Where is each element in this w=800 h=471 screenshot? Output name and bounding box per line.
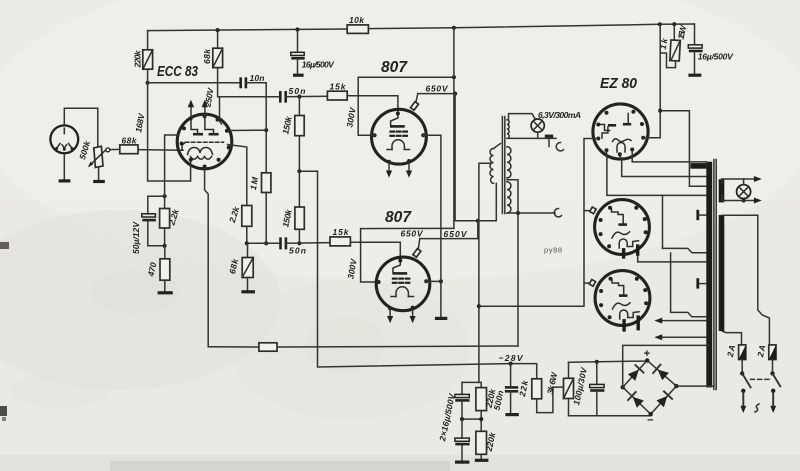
resistor 2.2k cathode xyxy=(160,196,182,246)
wire heater arrow line 1 xyxy=(654,318,706,324)
tube EZ80 pin dots xyxy=(596,110,645,157)
wire ECC83 pin down to bias rail xyxy=(205,169,209,347)
resistor 1M grid leak xyxy=(248,130,271,243)
chassis tag xyxy=(545,136,553,146)
resistor 220k anode load xyxy=(133,31,153,70)
socket 807-1 bottom pins xyxy=(622,248,625,259)
winding tap stub xyxy=(507,180,518,346)
wire 250V node xyxy=(218,68,281,97)
bridge nodes xyxy=(645,358,649,362)
socket 807-1 envelope xyxy=(595,200,650,255)
tube 807-2 internals xyxy=(391,261,414,297)
node 150k bottom xyxy=(297,241,301,245)
mains terminal left xyxy=(740,389,746,413)
ground under 68k xyxy=(241,290,255,293)
resistor 470 bias xyxy=(146,246,170,292)
switch pole right xyxy=(770,360,780,387)
svg-text:ECC 83: ECC 83 xyxy=(157,64,198,80)
wire 10n to grid2 node xyxy=(265,83,267,130)
transformer core xyxy=(501,117,503,214)
anode arrow up right xyxy=(202,100,208,117)
scan edge artifact left xyxy=(0,242,9,249)
resistor 15k grid stopper 1 xyxy=(327,82,347,101)
wire mains loop left xyxy=(722,331,742,345)
tube 807-1 envelope xyxy=(372,109,427,164)
wire block top xyxy=(462,382,481,387)
svg-text:−: − xyxy=(647,415,654,427)
tube ECC83 internals xyxy=(182,117,224,159)
capacitor 50n coupling upper xyxy=(280,86,327,103)
resistor 68k tail lower xyxy=(227,243,253,290)
svg-text:650V: 650V xyxy=(426,84,449,94)
top cap anode 807-2 xyxy=(413,239,422,258)
wire EZ80 pin heater loop xyxy=(607,152,663,249)
node top of 68k xyxy=(216,28,220,32)
cathode arrow down left 807-2 xyxy=(387,310,393,323)
wire bridge AC left xyxy=(623,345,709,387)
resistor 3k 6W xyxy=(545,362,574,416)
svg-text:68k: 68k xyxy=(122,136,138,146)
winding primary left xyxy=(490,149,494,184)
top cap anode 807-1 xyxy=(410,94,419,111)
svg-text:50n: 50n xyxy=(289,86,306,96)
top cap clip 1 xyxy=(584,207,596,214)
svg-text:50µ/12V: 50µ/12V xyxy=(131,221,141,254)
switch pole left xyxy=(740,360,751,388)
wire 220k down to junction and anode loop under tube xyxy=(147,69,149,83)
heater hook terminal xyxy=(556,142,563,150)
input jack socket xyxy=(50,125,78,153)
svg-text:+: + xyxy=(644,348,651,360)
wire B+ to transformer CT xyxy=(660,111,706,187)
capacitor 10n coupling xyxy=(148,73,267,88)
node 500n tap xyxy=(509,362,513,366)
wire block mid xyxy=(462,418,481,420)
winding HV upper xyxy=(507,147,511,178)
wire CT bias rail xyxy=(277,346,518,347)
wire 650V anode 2 xyxy=(420,238,478,240)
cathode arrow down right 807-1 xyxy=(406,163,412,178)
svg-text:EZ 80: EZ 80 xyxy=(600,75,638,92)
svg-text:807: 807 xyxy=(385,209,412,226)
wire 250V to tube anode pin xyxy=(220,97,222,124)
mains terminal right xyxy=(770,389,776,413)
potentiometer 500k xyxy=(77,138,110,167)
tube EZ80 envelope xyxy=(593,104,648,159)
node top of 16u xyxy=(295,27,299,31)
diode TR xyxy=(653,365,669,381)
top cap clip 2 xyxy=(584,280,596,287)
tube ECC83 pin dots xyxy=(180,114,231,168)
fuse 2A right xyxy=(755,344,776,360)
wire heater return xyxy=(509,132,538,138)
node tail junction xyxy=(245,241,249,245)
diode BL xyxy=(628,392,644,408)
svg-text:16µ/500V: 16µ/500V xyxy=(302,60,335,70)
node screens feed xyxy=(452,26,456,30)
capacitor 16u doubler 2 xyxy=(455,419,470,462)
wire HV bottom to hook xyxy=(507,212,555,214)
wire rectifier plus rail xyxy=(569,360,648,362)
svg-text:650V: 650V xyxy=(444,229,468,239)
cathode arrow down right 807-2 xyxy=(410,310,416,324)
label AC tilde xyxy=(755,404,759,412)
wire 650V anode 1 xyxy=(418,93,455,95)
wire 15k to grid top entry xyxy=(347,96,398,112)
wire lower node bus xyxy=(247,242,281,244)
terminal tag upper xyxy=(698,210,707,220)
resistor 22k xyxy=(517,378,564,412)
socket 807-2 pin dots xyxy=(599,277,648,320)
svg-text:68k: 68k xyxy=(202,48,212,64)
capacitor 16u doubler 1 xyxy=(437,382,470,442)
tube 807-1 pin dots xyxy=(373,112,426,164)
tube 807-2 pin dots xyxy=(377,259,429,311)
tube ECC83 envelope xyxy=(177,114,232,169)
svg-text:220k: 220k xyxy=(133,49,143,68)
terminal tag lower xyxy=(698,278,707,288)
bridge diamond xyxy=(623,360,677,414)
node below 2.2k xyxy=(163,244,167,248)
wire rectifier minus rail xyxy=(569,414,651,416)
winding primary thick bar xyxy=(706,162,712,388)
resistor 150k upper xyxy=(280,97,304,172)
wire pot to ground xyxy=(98,168,100,181)
winding top corner bar xyxy=(690,163,706,169)
wire tube pin to cathode network xyxy=(165,135,178,196)
wire bridge AC right xyxy=(676,385,714,387)
node 1M junction xyxy=(264,241,268,245)
svg-text:650V: 650V xyxy=(401,229,424,239)
node HV bottom xyxy=(516,211,520,215)
resistor 1k 15W bleeder xyxy=(658,24,689,68)
resistor 10k xyxy=(347,25,368,34)
wire socket1 pin to OPT tap xyxy=(638,256,671,262)
resistor bias series xyxy=(259,343,277,351)
node cathode junction xyxy=(163,194,167,198)
diode TL xyxy=(628,365,644,381)
ground under jack xyxy=(59,179,71,182)
wire EZ80 left pin down clips xyxy=(479,139,598,307)
capacitor 16u/500V first filter xyxy=(291,30,335,76)
node 650V-2 drop xyxy=(476,219,480,223)
HV hook terminal xyxy=(554,208,561,216)
wire speaker terminal top xyxy=(722,176,762,184)
wire tap box2 xyxy=(670,253,672,262)
resistor 220k bleeder 1 xyxy=(476,387,498,431)
tube 807-2 envelope xyxy=(376,257,430,311)
resistor 15k grid stopper 2 xyxy=(330,227,350,246)
winding heater 6.3V xyxy=(507,120,509,139)
winding secondary speaker bar xyxy=(719,179,725,202)
transformer core lines xyxy=(713,160,715,390)
wire -28V rail xyxy=(318,171,537,379)
node B+ takeoff xyxy=(658,109,662,113)
wire EZ80 pin tap2 xyxy=(620,156,707,177)
ground under pot xyxy=(93,180,105,183)
wire tube pin to grid2 node xyxy=(230,129,267,131)
diode BR xyxy=(657,391,673,407)
svg-text:16µ/500V: 16µ/500V xyxy=(698,52,734,62)
svg-text:50n: 50n xyxy=(289,246,306,256)
wire heater arrow line 2 xyxy=(654,334,706,340)
svg-text:py88: py88 xyxy=(544,246,562,255)
speaker lamp xyxy=(737,179,751,203)
resistor 2.2k tail xyxy=(227,204,252,243)
svg-text:15k: 15k xyxy=(333,227,350,237)
wire mains loop right xyxy=(722,215,770,345)
node grid2 xyxy=(264,128,268,132)
capacitor 50n coupling lower xyxy=(281,237,331,255)
wire jack to pot xyxy=(64,108,98,146)
node 150k top xyxy=(297,95,301,99)
svg-text:807: 807 xyxy=(381,59,408,76)
tube EZ80 internals xyxy=(599,114,631,153)
node 1k bleeder xyxy=(672,22,676,26)
cathode arrow down left 807-1 xyxy=(386,164,392,178)
wire speaker terminal bottom xyxy=(722,195,762,204)
resistor 68k anode load 2 xyxy=(202,30,223,68)
winding mains bar xyxy=(719,215,725,331)
socket 807-1 internals xyxy=(612,209,639,249)
wire cathode ground bus 807s xyxy=(423,135,441,317)
capacitor 100u/30V xyxy=(571,362,604,416)
anode arrow up left xyxy=(188,100,194,117)
capacitor 16u/500V second filter xyxy=(688,24,734,75)
svg-text:10n: 10n xyxy=(250,73,265,83)
node EZ80 cathode xyxy=(658,22,662,26)
ground 807 cathodes xyxy=(435,317,447,320)
wire 650V-2 drop xyxy=(477,221,479,239)
screen loop 300V tube2 xyxy=(361,229,378,282)
svg-text:15k: 15k xyxy=(330,82,347,92)
node clip line xyxy=(477,304,481,308)
wire top rail xyxy=(148,29,348,31)
switch link dashed xyxy=(751,378,770,380)
wire 15k to grid top entry 2 xyxy=(350,242,400,259)
socket 807-2 bottom pins xyxy=(622,319,625,332)
resistor 68k grid stopper xyxy=(110,136,138,154)
ground under 470 xyxy=(158,291,173,294)
capacitor 500n xyxy=(492,364,519,415)
node 100u top xyxy=(595,360,599,364)
socket 807-1 pin dots xyxy=(599,206,648,249)
resistor 220k bleeder 2 xyxy=(475,430,498,460)
svg-text:6,3V/300mA: 6,3V/300mA xyxy=(538,110,581,120)
wire EZ80 pin to OPT top xyxy=(632,151,706,162)
node anode/220k junction xyxy=(146,81,150,85)
screen loop 300V tube1 xyxy=(358,77,454,135)
wire B+ vertical from rail xyxy=(454,28,496,221)
wire jack to ground xyxy=(63,153,65,179)
node between 150k xyxy=(297,169,301,173)
tube 807-1 internals xyxy=(387,114,410,150)
lamp 6.3V dial xyxy=(509,110,582,132)
socket 807-2 internals xyxy=(612,280,639,320)
capacitor 50u/12V cathode bypass xyxy=(131,196,165,254)
svg-text:10k: 10k xyxy=(349,15,365,25)
winding HV lower xyxy=(507,182,511,213)
wire tube pin to 2.2k tail xyxy=(228,145,247,206)
wire EZ80 cathode to rail xyxy=(643,24,660,138)
svg-text:−28V: −28V xyxy=(499,353,524,363)
resistor 150k lower xyxy=(280,171,304,243)
fuse 2A left xyxy=(725,344,746,360)
socket 807-2 envelope xyxy=(595,271,650,326)
wire grid to ECC83 xyxy=(138,149,183,152)
wire feed from primary tap xyxy=(479,163,491,382)
